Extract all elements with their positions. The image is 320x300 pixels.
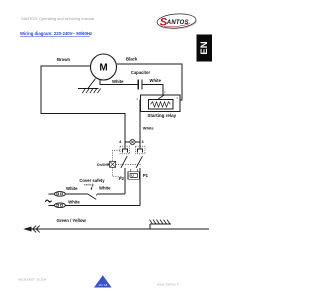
svg-text:M: M xyxy=(99,63,107,74)
svg-text:Starting relay: Starting relay xyxy=(147,113,176,118)
arrowhead green yellow xyxy=(23,227,31,232)
svg-text:Wiring diagram: 220-240V~ 50/6: Wiring diagram: 220-240V~ 50/60Hz xyxy=(20,31,92,36)
svg-text:1: 1 xyxy=(164,91,166,94)
motor earth lead xyxy=(88,79,96,89)
frame ground line xyxy=(150,224,171,229)
linkage dashes xyxy=(113,150,141,176)
footer triangle logo xyxy=(94,275,112,287)
relay coil box xyxy=(149,100,174,110)
break chevrons xyxy=(33,226,40,233)
relay coil zigzag xyxy=(151,102,171,107)
svg-text:P1: P1 xyxy=(143,173,149,178)
svg-text:White: White xyxy=(150,78,162,83)
capacitor C xyxy=(138,80,142,90)
svg-text:SANTOS: Operating and servicin: SANTOS: Operating and servicing manual xyxy=(21,16,94,21)
cover safety arrow xyxy=(92,185,93,189)
svg-text:White: White xyxy=(66,186,78,191)
svg-text:On/Off: On/Off xyxy=(97,163,109,167)
On/Off contact box R (dashed) xyxy=(135,146,145,154)
wire brown: motor left, down, across to On/Off pin 4 xyxy=(41,66,125,149)
svg-text:13 / 18: 13 / 18 xyxy=(98,283,107,287)
svg-text:Cover safety: Cover safety xyxy=(79,178,105,183)
cover safety right tick xyxy=(96,194,98,196)
cover safety blade xyxy=(88,194,97,200)
svg-text:98 118 EN ET - 01 2014: 98 118 EN ET - 01 2014 xyxy=(19,278,47,282)
wire white: motor bottom to capacitor to relay top pin xyxy=(100,80,163,96)
frame ground hatches xyxy=(150,220,171,224)
svg-text:White: White xyxy=(112,79,124,84)
ground line (motor) xyxy=(78,88,99,90)
svg-text:White: White xyxy=(99,186,111,191)
On/Off contact box L (dashed) xyxy=(120,146,130,154)
Santos logo xyxy=(157,13,198,31)
switch blade R xyxy=(136,156,142,168)
row1 white stub xyxy=(49,193,55,195)
ground hatches (motor) xyxy=(82,89,100,94)
svg-text:3: 3 xyxy=(141,139,144,144)
wire white: relay left pin down to On/Off pin 3 xyxy=(139,100,142,149)
row1 line to cover safety switch xyxy=(65,193,87,195)
svg-text:3: 3 xyxy=(176,97,178,100)
lamp stubs xyxy=(125,141,140,143)
motor M xyxy=(91,54,117,80)
contact terminal L xyxy=(123,149,128,153)
wire: blade R to P1 terminal down to row2 xyxy=(139,168,141,206)
svg-text:P2: P2 xyxy=(119,176,125,181)
On/Off actuator xyxy=(110,161,116,167)
svg-text:White: White xyxy=(68,199,80,204)
starting relay box xyxy=(141,95,181,112)
labels xyxy=(45,57,178,223)
connector row2 xyxy=(54,203,65,208)
suppressor inner xyxy=(130,173,138,177)
EN tab xyxy=(197,35,213,62)
relay contact blade xyxy=(158,95,165,100)
connector row1 xyxy=(54,192,65,197)
row2 line to P1 wire xyxy=(65,204,140,206)
svg-text:Black: Black xyxy=(126,57,138,62)
row1 line to P2 wire xyxy=(97,193,125,195)
svg-text:2: 2 xyxy=(137,98,139,101)
lamp On/Off indicator xyxy=(130,139,135,144)
svg-text:www.santos.fr: www.santos.fr xyxy=(157,283,180,287)
wire black: motor right to relay right pin xyxy=(117,64,182,100)
arrowhead cover safety xyxy=(91,188,93,190)
row2 stub xyxy=(49,204,55,206)
svg-text:White: White xyxy=(143,125,155,130)
svg-text:switch: switch xyxy=(84,184,94,187)
label ~ xyxy=(45,200,51,202)
wire: blade L to P2 terminal to White row1 xyxy=(124,168,126,194)
contact terminal R xyxy=(138,149,143,153)
suppressor box xyxy=(128,172,140,179)
svg-text:Capacitor: Capacitor xyxy=(131,70,151,75)
switch blade L xyxy=(121,156,127,168)
svg-text:4: 4 xyxy=(119,139,122,144)
green yellow line xyxy=(31,228,209,230)
svg-text:Brown: Brown xyxy=(57,57,70,62)
svg-text:EN: EN xyxy=(199,41,210,54)
svg-text:Green / Yellow: Green / Yellow xyxy=(57,218,87,223)
